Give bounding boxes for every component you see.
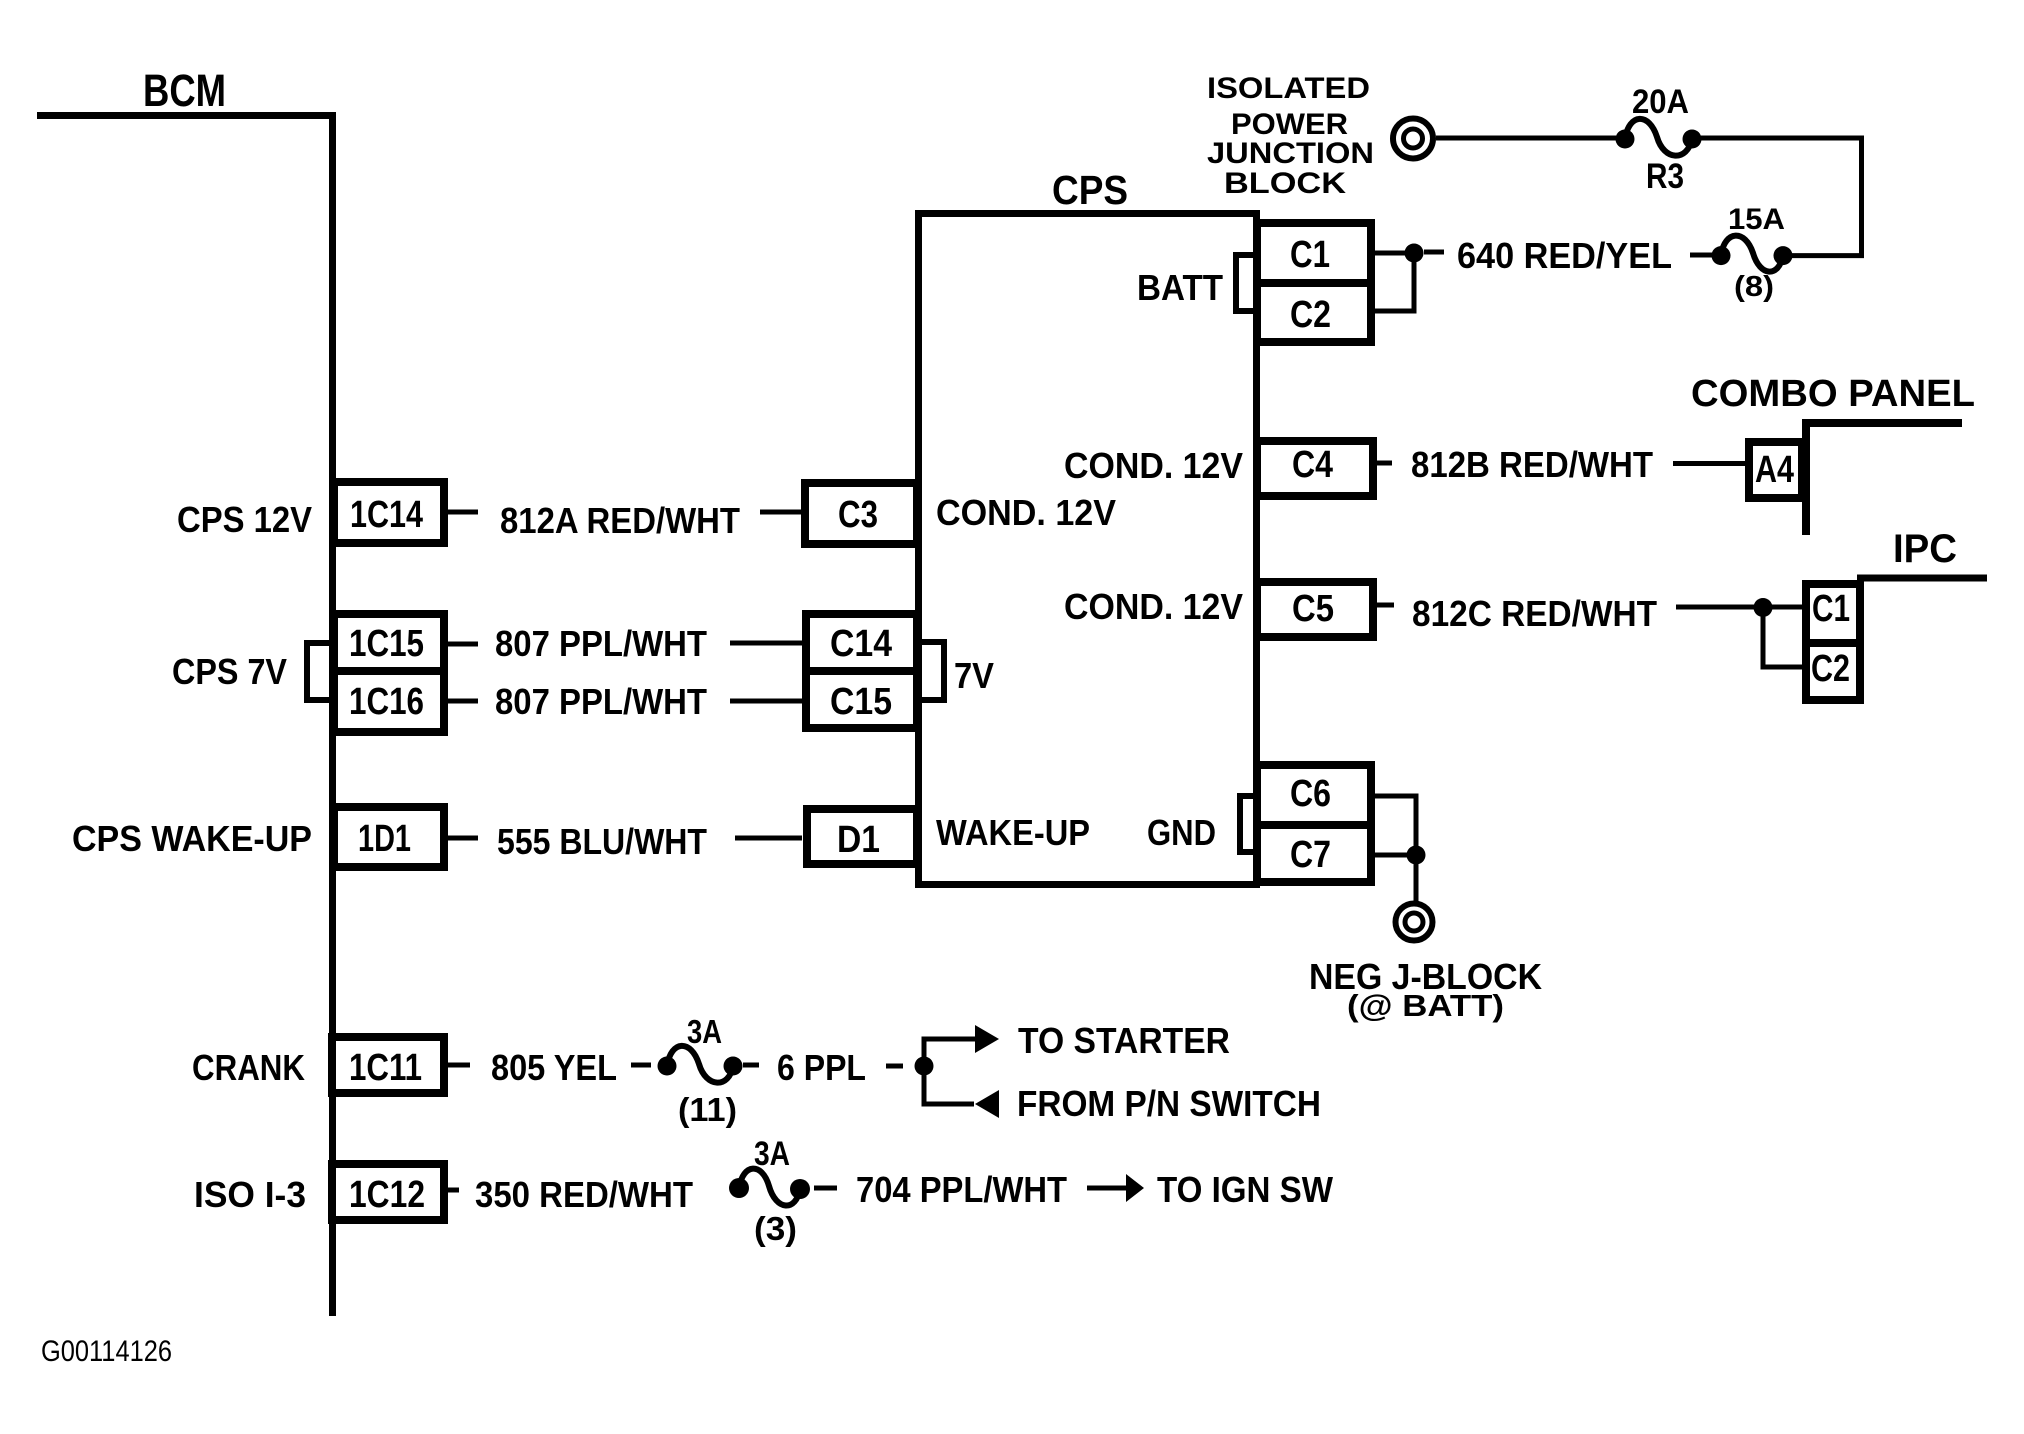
wire C2 riser [1375,253,1414,311]
ground NEG J-BLOCK terminal [1396,904,1433,941]
module IPC label [1893,527,1957,571]
svg-text:(11): (11) [678,1091,737,1128]
svg-text:(8): (8) [1734,271,1774,303]
svg-text:C1: C1 [1812,588,1850,630]
pin 1C14 [334,482,444,543]
svg-text:COMBO PANEL: COMBO PANEL [1691,373,1975,415]
wire terminal to 20A fuse [1436,136,1616,141]
wire dash after junction [1424,250,1444,255]
pin C5 [1257,582,1373,637]
wire label 350 RED/WHT [475,1174,693,1215]
node COND. 12V (C5) [1064,586,1243,627]
wire junction riser to IPC C2 [1763,607,1802,667]
svg-text:CRANK: CRANK [192,1047,305,1088]
wire dash after (3) fuse [814,1186,837,1191]
wire C7 [1375,853,1416,858]
svg-text:6 PPL: 6 PPL [777,1047,866,1088]
wire label 807 PPL/WHT (upper) [495,623,707,664]
bracket 7V [921,642,994,700]
module CPS box [919,214,1257,885]
node CPS WAKE-UP [72,818,312,859]
wire branch riser [924,1039,975,1104]
wire 1C12 stub [448,1188,459,1193]
node COND. 12V (C3) [936,492,1116,533]
svg-text:COND. 12V: COND. 12V [1064,445,1243,486]
pin A4 [1749,442,1802,498]
svg-text:FROM P/N SWITCH: FROM P/N SWITCH [1017,1083,1321,1124]
wire junction to IPC C1 [1772,605,1802,610]
figure id G00114126 [41,1335,172,1368]
svg-text:GND: GND [1147,812,1216,853]
svg-text:812A RED/WHT: 812A RED/WHT [500,500,740,541]
ground NEG J-BLOCK label [1309,956,1542,1023]
wire label 805 YEL [491,1047,617,1088]
node CPS 12V [177,499,312,540]
svg-text:1D1: 1D1 [358,818,411,860]
pin C2 [1257,283,1371,342]
wire C4 stub [1377,461,1392,466]
wire 15A to riser to 20A line [1701,138,1862,256]
svg-text:C1: C1 [1290,234,1330,276]
svg-text:807 PPL/WHT: 807 PPL/WHT [495,623,707,664]
svg-text:BATT: BATT [1137,267,1223,308]
pin 1C12 [332,1164,444,1220]
bracket GND [1240,796,1255,852]
svg-text:CPS 7V: CPS 7V [172,651,287,692]
pin C6 [1257,765,1371,825]
pin C4 [1257,441,1373,496]
wire 1C16 stub [448,699,478,704]
svg-text:COND. 12V: COND. 12V [1064,586,1243,627]
svg-text:WAKE-UP: WAKE-UP [936,812,1090,853]
pin 1C16 [334,671,444,732]
pin C15 [806,671,917,728]
svg-text:C4: C4 [1292,444,1333,486]
wire label 6 PPL [777,1047,866,1088]
svg-text:807 PPL/WHT: 807 PPL/WHT [495,681,707,722]
svg-text:812B RED/WHT: 812B RED/WHT [1411,444,1653,485]
junction IPC [1754,598,1773,617]
node COND. 12V (C4) [1064,445,1243,486]
svg-text:COND. 12V: COND. 12V [936,492,1116,533]
module BCM label [143,65,226,116]
svg-text:15A: 15A [1728,203,1785,236]
module IPC outline [1857,575,1987,582]
wire to IPC junction [1676,605,1754,610]
svg-text:C3: C3 [838,494,878,536]
module CPS label [1052,167,1128,213]
wire to C14 [730,641,802,646]
bracket CPS 7V [307,643,330,700]
svg-text:1C15: 1C15 [349,623,424,665]
wire 1C14 stub [448,510,478,515]
svg-text:640 RED/YEL: 640 RED/YEL [1457,235,1672,276]
svg-text:1C16: 1C16 [349,681,424,723]
pin C3 [805,483,917,544]
svg-text:20A: 20A [1632,83,1689,121]
wire C5 stub [1377,603,1394,608]
wire dash after 3A fuse [743,1063,759,1068]
wire label 812C RED/WHT [1412,593,1657,634]
svg-text:JUNCTION: JUNCTION [1207,137,1374,170]
wire 1C15 stub [448,642,478,647]
svg-text:3A: 3A [754,1135,790,1173]
wire label 807 PPL/WHT (lower) [495,681,707,722]
terminal ISOLATED POWER JUNCTION BLOCK [1393,119,1433,159]
svg-text:1C14: 1C14 [350,494,423,536]
pin 1C11 [332,1037,444,1093]
wire label 704 PPL/WHT [856,1169,1067,1210]
svg-text:G00114126: G00114126 [41,1335,172,1368]
wire to C15 [730,699,802,704]
pin D1 [807,809,917,864]
wire 1D1 stub [448,836,478,841]
svg-text:ISOLATED: ISOLATED [1207,72,1370,105]
svg-text:3A: 3A [687,1013,722,1050]
pin 1C15 [334,614,444,671]
svg-text:1C11: 1C11 [349,1047,422,1089]
svg-text:A4: A4 [1755,449,1794,491]
svg-text:BLOCK: BLOCK [1224,167,1346,200]
svg-text:C5: C5 [1292,588,1334,630]
pin C7 [1257,825,1371,882]
arrow FROM P/N SWITCH [975,1083,1321,1124]
pin C14 [806,614,917,671]
wire to D1 [735,836,802,841]
junction C6/C7 [1407,846,1426,865]
svg-text:C7: C7 [1290,834,1331,876]
svg-text:BCM: BCM [143,65,226,116]
svg-text:CPS 12V: CPS 12V [177,499,312,540]
svg-text:C14: C14 [830,623,892,665]
svg-text:D1: D1 [837,819,880,861]
wire dash before branch junction [886,1064,903,1069]
svg-text:IPC: IPC [1893,527,1957,571]
wire dash before 3A fuse [631,1063,651,1068]
node GND [1147,812,1216,853]
wire label 812B RED/WHT [1411,444,1653,485]
svg-text:(3): (3) [754,1210,797,1247]
wire C1 to junction [1375,251,1410,256]
pin C2 (IPC) [1806,643,1860,700]
svg-text:C15: C15 [830,681,892,723]
svg-text:TO STARTER: TO STARTER [1018,1020,1230,1061]
node BATT [1137,267,1223,308]
wire label 812A RED/WHT [500,500,740,541]
node ISO I-3 [194,1174,306,1215]
svg-text:C6: C6 [1290,773,1331,815]
svg-text:805 YEL: 805 YEL [491,1047,617,1088]
wire dash before 15A fuse [1690,253,1712,258]
wire label 555 BLU/WHT [497,821,707,862]
node CRANK [192,1047,305,1088]
svg-text:C2: C2 [1811,648,1850,690]
wire 1C11 stub [448,1063,470,1068]
svg-text:812C RED/WHT: 812C RED/WHT [1412,593,1657,634]
svg-text:(@ BATT): (@ BATT) [1347,988,1504,1023]
svg-text:7V: 7V [954,655,994,696]
svg-text:CPS: CPS [1052,167,1128,213]
svg-text:R3: R3 [1646,157,1684,196]
svg-text:ISO I-3: ISO I-3 [194,1174,306,1215]
node CPS 7V [172,651,287,692]
svg-text:350 RED/WHT: 350 RED/WHT [475,1174,693,1215]
module COMBO PANEL outline [1806,423,1962,535]
junction branch [915,1057,934,1076]
node WAKE-UP [936,812,1090,853]
pin C1 [1257,223,1371,283]
bracket BATT [1236,255,1255,311]
fuse R3 20A [1616,83,1702,196]
fuse (8) 15A [1712,203,1793,303]
fuse (11) 3A [658,1013,743,1128]
wire C6 riser [1375,796,1416,855]
svg-text:C2: C2 [1290,294,1331,336]
svg-text:704 PPL/WHT: 704 PPL/WHT [856,1169,1067,1210]
svg-text:TO IGN SW: TO IGN SW [1157,1169,1333,1210]
fuse (3) 3A [729,1135,810,1247]
wire label 640 RED/YEL [1457,235,1672,276]
wire to C3 [760,510,801,515]
svg-text:CPS WAKE-UP: CPS WAKE-UP [72,818,312,859]
module ISOLATED POWER JUNCTION BLOCK label [1207,72,1374,200]
arrow TO IGN SW [1087,1169,1333,1210]
svg-text:555 BLU/WHT: 555 BLU/WHT [497,821,707,862]
wire to ground terminal [1414,855,1419,902]
wire to A4 [1673,461,1749,466]
arrow TO STARTER [975,1020,1230,1061]
module BCM bus [37,116,333,1317]
pin C1 (IPC) [1806,584,1860,643]
pin 1D1 [334,807,444,867]
junction C1/C2 [1405,244,1424,263]
module COMBO PANEL label [1691,373,1975,415]
svg-text:1C12: 1C12 [349,1174,425,1216]
